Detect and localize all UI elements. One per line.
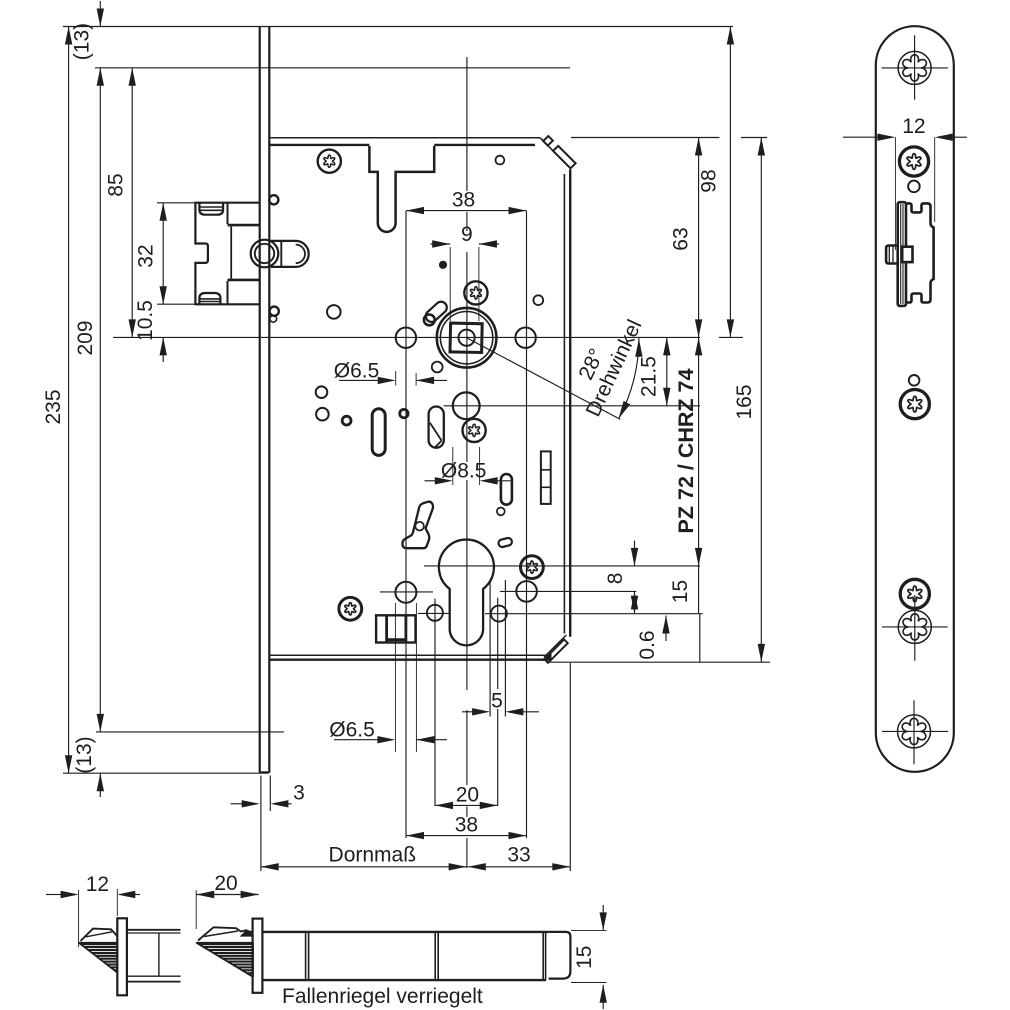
black pivot dot	[439, 261, 447, 269]
svg-text:63: 63	[670, 227, 693, 250]
centerline lower D6.5 right	[500, 590, 636, 592]
rotation angle arc	[619, 338, 639, 418]
small hole below screw F	[908, 181, 920, 193]
dimension 5	[462, 711, 473, 713]
latch keeper bar	[898, 202, 906, 306]
T-shaped cutout at case top	[369, 146, 434, 232]
lower hole M5 left	[427, 605, 443, 621]
screw torx G	[900, 390, 929, 419]
centerline M5 left	[418, 612, 449, 614]
svg-text:Ø6.5: Ø6.5	[334, 360, 380, 383]
spindle follower outer ring	[437, 308, 497, 368]
lower hole D6.5 left	[395, 582, 416, 603]
horizontal centerline through cylinder	[424, 565, 700, 567]
svg-text:12: 12	[86, 873, 109, 896]
top screw rosette crosshair	[882, 67, 949, 69]
vertical centerline M5 left	[434, 599, 436, 807]
dimension 98	[729, 27, 731, 338]
svg-text:32: 32	[135, 244, 158, 267]
rivet small bold left	[342, 416, 351, 425]
hole left column 2	[316, 386, 328, 398]
screw torx E bottom-left	[339, 597, 362, 620]
svg-text:165: 165	[733, 384, 756, 419]
dimension 10.5	[162, 337, 164, 362]
rivet small bold right	[400, 409, 408, 417]
body divider 3	[542, 932, 544, 979]
svg-text:33: 33	[507, 844, 530, 867]
lower screw rosette	[898, 610, 931, 643]
guide pin upper on faceplate	[269, 195, 278, 204]
body end cap	[549, 932, 571, 979]
vertical centerline right hole column	[526, 211, 528, 838]
latch bolt head ring inner	[255, 244, 274, 263]
dimension 9	[431, 243, 451, 245]
top-right corner tab piece 1	[543, 136, 553, 146]
lock case right inner edge	[563, 174, 565, 634]
centerline M5 right / 15-dim reference	[485, 613, 703, 615]
vertical centerline M5 right	[497, 598, 499, 689]
svg-text:209: 209	[74, 320, 97, 355]
extension line: bottom screw axis reference	[96, 731, 284, 733]
dimension 85	[131, 68, 133, 338]
rotation angle line 28deg	[467, 338, 621, 420]
svg-text:Fallenriegel verriegelt: Fallenriegel verriegelt	[282, 985, 483, 1008]
svg-text:8: 8	[604, 573, 627, 585]
small view case rails	[127, 929, 181, 931]
latch guide box outline	[195, 203, 259, 305]
svg-text:Ø6.5: Ø6.5	[329, 719, 375, 742]
small view latch wedge (hatched)	[79, 943, 117, 973]
extension line: latch box bottom	[157, 303, 260, 305]
vertical centerline through spindle/cylinder	[466, 57, 468, 191]
bean slot	[499, 538, 512, 547]
hole left column 3	[316, 408, 329, 421]
slot with lever left-middle	[429, 407, 444, 448]
extension faceplate left edge down	[260, 776, 262, 872]
extension line 5-dim left	[489, 580, 491, 717]
bottom view latch blade notch (filled)	[240, 930, 253, 937]
bottom rosette crosshair	[882, 730, 948, 732]
top-right bevel edge	[540, 138, 571, 169]
svg-text:20: 20	[214, 872, 237, 895]
latch box bottom-left serrated tab	[199, 293, 220, 304]
screw torx B above spindle	[464, 281, 487, 304]
lock case bottom inner edge	[269, 654, 550, 656]
body divider 1	[305, 932, 307, 980]
lower hole M5 right	[491, 606, 507, 622]
bottom view latch wedge (hatched)	[197, 943, 253, 977]
extension line 5-dim right	[504, 580, 506, 717]
faceplate front view outline	[876, 26, 954, 772]
hole left column 1	[327, 305, 341, 319]
svg-text:85: 85	[105, 173, 128, 196]
latch bolt body (stadium)	[271, 241, 309, 267]
middle small hole	[909, 375, 920, 386]
dimension Dornmass	[261, 866, 467, 868]
bottom-right tab end arrow	[540, 654, 552, 661]
extension line: latch box top	[157, 202, 197, 204]
vertical slot lower-left	[372, 409, 385, 456]
bottom-right bevel edge	[544, 635, 566, 657]
latch keeper left tab	[886, 246, 898, 264]
deadbolt block	[376, 615, 415, 642]
bottom screw rosette	[898, 715, 931, 748]
lock body side view bottom edge	[262, 979, 546, 981]
dimension (13) bottom	[99, 773, 101, 797]
dimension 38 bottom	[406, 835, 527, 837]
dimension 235	[68, 27, 70, 774]
latch bolt body divider	[280, 241, 282, 266]
guide pin lower on faceplate	[270, 307, 279, 316]
small hole right of spindle upper	[533, 295, 543, 305]
svg-text:10.5: 10.5	[134, 300, 157, 341]
screw torx C below spindle	[463, 419, 486, 442]
svg-text:0.6: 0.6	[636, 630, 659, 659]
faceplate strip (main view)	[259, 27, 261, 773]
spindle square	[450, 323, 482, 352]
svg-text:5: 5	[491, 690, 503, 713]
svg-text:20: 20	[456, 784, 479, 807]
tick at 98 line bottom	[719, 336, 743, 338]
dimension 15 right	[698, 566, 700, 614]
small view latch blade outline	[81, 929, 118, 941]
latch bolt body inner arc	[296, 245, 305, 264]
dimension 20 bottom	[435, 804, 498, 806]
svg-text:9: 9	[461, 223, 473, 246]
bottom view faceplate bar	[253, 919, 263, 993]
svg-text:98: 98	[698, 169, 721, 192]
dimension 33	[468, 866, 571, 868]
spindle center hole	[459, 330, 475, 346]
mounting hole M6.5 right	[515, 328, 535, 348]
dimension 3	[231, 803, 243, 805]
svg-text:38: 38	[455, 814, 478, 837]
screw torx F	[899, 147, 928, 176]
horizontal centerline through spindle	[113, 336, 700, 338]
extension line case top right	[571, 137, 720, 139]
lock body side view top edge	[262, 931, 548, 933]
lever boot pivot	[415, 522, 424, 531]
svg-text:(13): (13)	[73, 736, 96, 773]
screw torx H	[900, 579, 929, 608]
extension case right edge down	[569, 663, 571, 871]
top screw rosette	[898, 51, 931, 84]
bottom-right corner tab	[545, 640, 568, 663]
latch box inner bottom wall	[227, 281, 229, 304]
profile cylinder hole PZ	[439, 540, 494, 646]
dimension 21.5	[666, 337, 668, 405]
spring pivot bold circle	[424, 315, 435, 326]
extension case bottom to 165 arrow	[546, 661, 770, 663]
horizontal centerline through D8.5 hole	[444, 405, 700, 407]
dimension 15 height	[602, 905, 604, 930]
small hole below lower pin	[270, 315, 277, 322]
screw torx A top-left	[318, 150, 341, 173]
dimension 0.6	[665, 616, 667, 642]
small hole top-right	[496, 156, 505, 165]
lock case top outer edge	[269, 137, 540, 139]
lock case top inner edge	[269, 144, 369, 146]
latch box inner top wall	[227, 203, 229, 224]
svg-text:38: 38	[452, 189, 475, 212]
dimension 38 top	[406, 210, 527, 212]
latch bolt head ring outer	[251, 240, 279, 268]
svg-text:15: 15	[669, 580, 692, 603]
dimension 165	[760, 138, 762, 662]
latch keeper body	[906, 203, 934, 302]
hole D8.5 below spindle	[453, 392, 480, 419]
spindle follower inner ring	[440, 312, 492, 364]
mounting hole M6.5 left	[396, 328, 416, 348]
dimension 8	[634, 541, 636, 566]
latch keeper tab window	[902, 247, 912, 262]
svg-text:3: 3	[293, 782, 305, 805]
lever boot shape	[402, 502, 433, 549]
small hole left of spindle lower	[432, 362, 443, 373]
dimension (13) top	[99, 1, 101, 27]
spring stadium upper-left of spindle	[426, 302, 447, 322]
small view faceplate bar	[117, 918, 127, 995]
svg-text:12: 12	[902, 115, 925, 138]
centerline lower D6.5 left	[380, 591, 433, 593]
vertical centerline left hole column	[405, 211, 407, 838]
dimension line PZ 72 / CHRZ 74	[698, 337, 700, 566]
svg-text:Dornmaß: Dornmaß	[329, 844, 417, 867]
vertical slot right-middle	[501, 474, 512, 505]
dimension 32	[162, 203, 164, 304]
latch box channel left wall	[230, 226, 232, 278]
top-right corner tab piece 2	[553, 146, 576, 168]
bolt guide rectangle 3 cells	[541, 451, 551, 504]
latch box lower shaft shelf	[228, 279, 260, 282]
body divider 2	[434, 932, 436, 980]
svg-text:(13): (13)	[71, 23, 94, 60]
bottom view latch blade outline	[198, 927, 253, 940]
dimension 63	[698, 138, 700, 338]
latch box top-left serrated tab	[199, 203, 223, 215]
extension line: faceplate bottom reference	[63, 772, 268, 774]
extension line: top screw axis reference	[95, 67, 570, 69]
svg-text:15: 15	[573, 946, 596, 969]
lock case bottom outer edge	[269, 659, 545, 661]
lower rosette crosshair	[882, 626, 948, 628]
screw torx D right of cylinder	[521, 556, 544, 579]
extension faceplate right edge down	[269, 776, 271, 812]
lock case right outer edge	[569, 170, 571, 637]
svg-text:21.5: 21.5	[637, 356, 660, 397]
svg-text:PZ 72 / CHRZ 74: PZ 72 / CHRZ 74	[674, 369, 698, 534]
svg-text:235: 235	[42, 389, 65, 424]
dimension 209	[99, 68, 101, 732]
extension line: faceplate top reference	[63, 26, 733, 28]
lower hole D6.5 right	[516, 581, 537, 602]
small hole right of D8.5 slot	[497, 508, 505, 516]
latch box upper shaft shelf	[228, 224, 260, 227]
